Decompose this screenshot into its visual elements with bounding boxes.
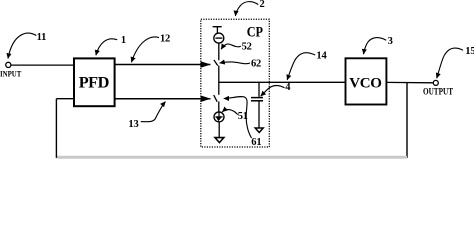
output terminal circle: [433, 80, 438, 85]
svg-text:51: 51: [238, 111, 248, 122]
feedback wire right vertical: [406, 83, 408, 158]
wire switch 62 to node and switch 61: [218, 66, 220, 95]
svg-text:3: 3: [388, 36, 393, 47]
label 12: [132, 33, 171, 62]
label 13: [128, 102, 165, 130]
label 51: [222, 110, 248, 122]
feedback wire bottom grey: [56, 156, 407, 159]
wire switch 61 to current source 51: [218, 102, 220, 112]
label 3: [364, 36, 393, 54]
wire 52 to switch 62: [218, 43, 220, 60]
ground triangle right: [255, 128, 263, 133]
CP dashed box: [201, 19, 269, 147]
svg-text:14: 14: [316, 50, 327, 61]
svg-text:15: 15: [465, 46, 474, 57]
input terminal circle: [6, 62, 11, 67]
svg-text:52: 52: [242, 42, 252, 53]
switch 62: [214, 60, 218, 66]
svg-text:11: 11: [37, 32, 47, 43]
VCO block: [346, 58, 387, 104]
label 1: [96, 35, 126, 55]
wire VCO to output terminal: [386, 81, 433, 83]
label 11: [8, 32, 46, 59]
label 15: [437, 46, 474, 78]
switch 61: [214, 95, 218, 102]
label 62: [220, 58, 262, 69]
capacitor branch wire: [258, 82, 260, 97]
wire input to PFD: [11, 64, 75, 66]
svg-text:CP: CP: [247, 24, 263, 40]
wire capacitor to ground: [258, 101, 260, 128]
svg-text:12: 12: [160, 33, 170, 44]
label 52: [221, 42, 252, 53]
output node wire CP to VCO: [219, 81, 346, 83]
svg-text:OUTPUT: OUTPUT: [423, 88, 454, 98]
ground triangle left: [215, 138, 224, 143]
current source 51 circle with down arrow: [214, 112, 224, 122]
label 14: [287, 50, 327, 80]
capacitor 4 plates: [251, 98, 263, 101]
label 61: [224, 97, 262, 148]
label 2: [235, 0, 264, 16]
svg-text:2: 2: [260, 0, 265, 10]
svg-text:1: 1: [121, 35, 126, 46]
svg-text:62: 62: [251, 58, 261, 69]
arrow wire 12 PFD to CP: [115, 64, 211, 66]
svg-text:PFD: PFD: [79, 72, 109, 91]
feedback wire left vertical: [55, 99, 57, 158]
svg-text:61: 61: [251, 137, 261, 148]
wire 51 to ground: [218, 122, 220, 138]
feedback wire into PFD: [56, 98, 74, 100]
arrow wire 13 PFD to CP: [115, 98, 211, 100]
svg-text:VCO: VCO: [349, 76, 381, 92]
svg-text:INPUT: INPUT: [0, 69, 22, 79]
svg-text:13: 13: [128, 119, 138, 130]
current source 52 circle: [214, 33, 224, 43]
supply rail T: [213, 27, 222, 34]
label 4: [261, 82, 292, 96]
PFD block: [74, 58, 115, 106]
